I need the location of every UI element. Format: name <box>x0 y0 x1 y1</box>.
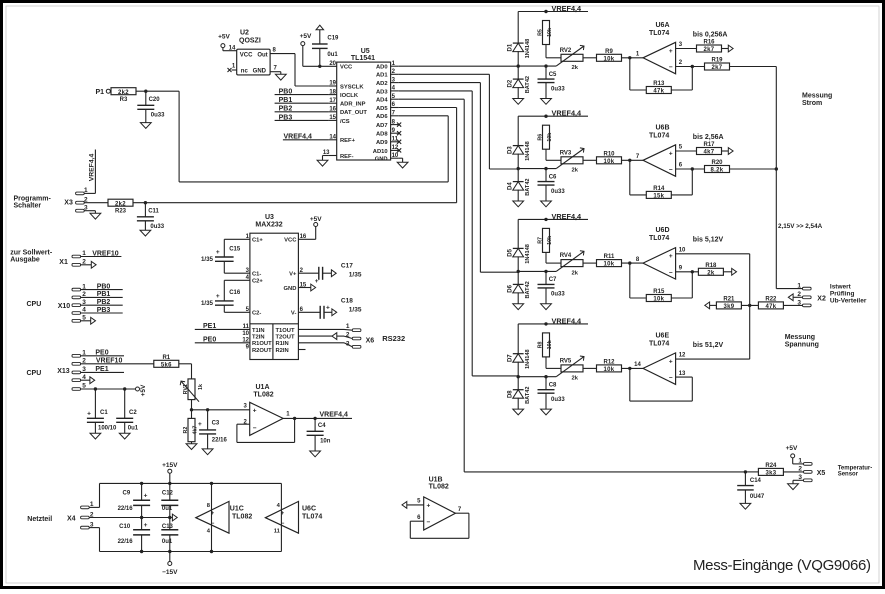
U5 pin 6 AD5 <box>376 102 399 112</box>
wire X4 pin 1 to +rail <box>89 483 281 507</box>
resistor R24 3k3 <box>745 463 803 477</box>
svg-text:R14: R14 <box>653 186 665 192</box>
svg-text:R20: R20 <box>711 160 723 166</box>
svg-text:R22: R22 <box>765 297 777 303</box>
svg-text:D2: D2 <box>508 79 514 87</box>
svg-text:0u1: 0u1 <box>162 506 173 512</box>
X10 pin 5 arrow <box>72 315 96 325</box>
trimmer RV2 2k <box>556 45 584 71</box>
svg-text:0u33: 0u33 <box>151 113 165 119</box>
ground C3 <box>202 449 213 455</box>
svg-text:Spannung: Spannung <box>785 341 819 348</box>
svg-text:Temperatur-: Temperatur- <box>838 465 873 471</box>
label Messung Spannung <box>785 334 819 348</box>
svg-text:+5V: +5V <box>218 34 230 41</box>
svg-text:+: + <box>669 359 673 366</box>
svg-text:2k: 2k <box>572 65 579 71</box>
svg-text:Strom: Strom <box>802 100 822 107</box>
resistor R7 10k pull-up <box>537 228 561 263</box>
+5V supply X5 <box>786 445 804 464</box>
svg-text:BAT42: BAT42 <box>525 281 531 298</box>
svg-text:Programm-: Programm- <box>14 196 52 203</box>
svg-text:BAT42: BAT42 <box>525 387 531 404</box>
ground D4 <box>513 201 524 207</box>
U5 pin 7 AD6 <box>376 111 399 121</box>
wire AD1 to channel 2 <box>399 74 518 169</box>
svg-text:nc: nc <box>241 69 249 75</box>
ground C14 <box>740 503 751 509</box>
U5 pin 16 DAT_OUT <box>329 107 368 117</box>
svg-text:+: + <box>315 278 319 285</box>
svg-text:0u1: 0u1 <box>128 426 139 432</box>
svg-text:R3: R3 <box>120 97 128 103</box>
U3 pin name T1OUT <box>276 328 295 334</box>
svg-text:1: 1 <box>798 458 802 465</box>
wire U3 R1IN to X6 <box>298 343 352 347</box>
capacitor C12 0u1 <box>161 483 178 517</box>
diode D7 1N4148 <box>508 324 531 379</box>
svg-text:5k6: 5k6 <box>161 362 172 368</box>
capacitor C19 <box>312 25 339 68</box>
capacitor C4 <box>307 418 331 451</box>
wire + input to divider <box>676 253 750 255</box>
U3 pin name T2OUT <box>276 335 295 341</box>
svg-text:Istwert: Istwert <box>830 284 852 291</box>
svg-text:CPU: CPU <box>27 301 42 308</box>
svg-text:3: 3 <box>346 340 350 347</box>
svg-text:2k7: 2k7 <box>704 47 715 53</box>
svg-text:VCC: VCC <box>240 53 253 59</box>
wire clamp node <box>518 65 556 67</box>
svg-text:2: 2 <box>346 332 350 339</box>
svg-text:U2: U2 <box>240 30 249 37</box>
wire X4 pin 3 to -rail <box>89 528 281 552</box>
X1 pin 1 VREF10 <box>72 250 121 258</box>
svg-text:VREF4,4: VREF4,4 <box>552 109 583 118</box>
svg-text:11: 11 <box>274 528 281 534</box>
svg-text:2,15V >> 2,54A: 2,15V >> 2,54A <box>778 223 823 230</box>
svg-text:1/35: 1/35 <box>201 256 214 263</box>
svg-text:R6: R6 <box>537 134 543 141</box>
svg-text:2k: 2k <box>572 376 579 382</box>
capacitor C15 <box>201 239 250 273</box>
resistor R20 8.2k to bus <box>676 160 777 174</box>
+5V supply U2 <box>218 34 237 52</box>
resistor R22 47k <box>758 297 802 311</box>
svg-text:AD10: AD10 <box>373 149 388 155</box>
op-amp U1C TL082 power <box>196 482 253 554</box>
svg-text:−: − <box>211 521 215 527</box>
svg-text:R10: R10 <box>603 151 615 157</box>
svg-text:10k: 10k <box>604 262 615 268</box>
svg-text:R1: R1 <box>162 355 170 361</box>
svg-text:VREF4,4: VREF4,4 <box>89 153 96 181</box>
op-amp U6B TL074 <box>636 124 683 176</box>
net label PB1 to U5 <box>275 97 329 104</box>
svg-text:Schalter: Schalter <box>14 203 42 210</box>
wire X4 pin 2 zero rail <box>89 514 177 521</box>
X3 pin 2 <box>76 196 108 204</box>
ground C4 <box>310 451 321 457</box>
svg-text:−: − <box>669 167 673 174</box>
svg-text:R12: R12 <box>603 360 615 366</box>
ground C7 <box>541 304 552 310</box>
svg-text:ADR_INP: ADR_INP <box>340 102 366 108</box>
svg-text:C3: C3 <box>212 421 220 427</box>
svg-text:C17: C17 <box>341 263 353 270</box>
trimmer RV5 2k <box>556 356 584 382</box>
svg-text:RS232: RS232 <box>382 334 405 343</box>
svg-text:+: + <box>669 253 673 260</box>
svg-text:47k: 47k <box>765 304 776 310</box>
op-amp U1B TL082 <box>417 477 462 531</box>
svg-text:D7: D7 <box>508 354 514 362</box>
svg-text:14: 14 <box>634 362 641 368</box>
resistor R18 2k to arrow <box>676 263 737 277</box>
X3 pin 3 ground <box>76 205 101 220</box>
svg-text:R15: R15 <box>653 289 665 295</box>
svg-text:0u1: 0u1 <box>162 539 173 545</box>
connector X5 Temperatur-Sensor <box>798 458 872 482</box>
+5V supply U5 <box>300 33 337 67</box>
resistor R10 10k <box>583 151 643 165</box>
wire U3 T2OUT to X6 with arrow <box>298 333 352 340</box>
svg-text:1/35: 1/35 <box>349 306 362 313</box>
connector X10 CPU <box>27 301 71 310</box>
svg-text:10k: 10k <box>604 159 615 165</box>
svg-text:D3: D3 <box>508 146 514 154</box>
svg-text:X3: X3 <box>64 199 73 206</box>
svg-text:PE0: PE0 <box>203 337 216 344</box>
svg-text:C5: C5 <box>549 72 557 78</box>
svg-text:15k: 15k <box>653 194 664 200</box>
svg-text:22/16: 22/16 <box>212 437 228 443</box>
svg-text:+: + <box>144 492 148 499</box>
svg-text:+: + <box>281 511 285 517</box>
svg-text:VREF4,4: VREF4,4 <box>552 4 583 13</box>
svg-text:C13: C13 <box>162 524 174 530</box>
+15V terminal <box>140 462 178 485</box>
diode D5 1N4148 <box>508 219 531 273</box>
svg-text:2k: 2k <box>572 168 579 174</box>
U5 GND ground <box>397 158 408 168</box>
X13 pin 5 +5V <box>72 383 147 397</box>
+5V supply U3 <box>298 216 322 239</box>
svg-text:U1A: U1A <box>256 384 270 391</box>
capacitor C3 <box>198 410 227 449</box>
resistor R9 10k <box>583 49 643 63</box>
svg-text:−: − <box>669 269 673 276</box>
svg-text:Messung: Messung <box>785 334 815 341</box>
resistor R19 2k7 to bus <box>676 58 777 72</box>
svg-text:2k: 2k <box>707 270 715 276</box>
ground C6 <box>541 201 552 207</box>
U5 pin 13 REF- <box>323 150 354 160</box>
svg-text:AD5: AD5 <box>376 106 388 112</box>
svg-text:TL082: TL082 <box>232 514 252 521</box>
ground C2 <box>119 433 130 439</box>
feedback wire U6E <box>630 368 693 401</box>
svg-text:C1-: C1- <box>252 272 261 278</box>
svg-text:AD3: AD3 <box>376 89 388 95</box>
bus current sense to X2 pin 1 <box>775 67 803 289</box>
svg-text:AD8: AD8 <box>376 132 388 138</box>
U3 pin 8 stub <box>298 349 305 351</box>
svg-text:10k: 10k <box>547 133 553 142</box>
svg-text:R18: R18 <box>705 263 717 269</box>
capacitor C8 0u33 <box>538 375 566 409</box>
svg-text:R5: R5 <box>537 29 543 36</box>
svg-text:C20: C20 <box>149 97 161 103</box>
svg-text:X10: X10 <box>58 303 71 310</box>
capacitor C2 <box>116 389 139 433</box>
capacitor C7 0u33 <box>538 270 566 304</box>
svg-text:P1: P1 <box>95 89 104 96</box>
wire AD2 to channel 3 <box>399 83 518 273</box>
wire X3 node to AD5 <box>133 201 457 204</box>
svg-text:10k: 10k <box>547 236 553 245</box>
svg-text:MAX232: MAX232 <box>255 221 282 228</box>
resistor R21 3k9 <box>716 297 758 311</box>
svg-text:C18: C18 <box>341 298 353 305</box>
svg-text:TL1541: TL1541 <box>351 55 375 62</box>
svg-text:R17: R17 <box>703 142 715 148</box>
svg-text:D6: D6 <box>508 284 514 292</box>
svg-text:1: 1 <box>346 323 350 330</box>
svg-text:3k9: 3k9 <box>723 304 734 310</box>
net PE0 to U3 <box>195 337 250 344</box>
op-amp U1A TL082 <box>243 384 290 435</box>
svg-text:2: 2 <box>798 466 802 473</box>
svg-text:AD9: AD9 <box>376 140 388 146</box>
svg-text:CPU: CPU <box>27 370 42 377</box>
svg-text:AD0: AD0 <box>376 65 388 71</box>
svg-text:10: 10 <box>242 331 249 337</box>
svg-text:12: 12 <box>679 353 686 359</box>
ground D2 <box>513 99 524 105</box>
svg-text:bis 2,56A: bis 2,56A <box>693 134 724 141</box>
svg-text:1N4148: 1N4148 <box>525 244 531 264</box>
svg-text:Prüfling: Prüfling <box>830 291 855 298</box>
resistor R2 4k7 <box>183 418 198 443</box>
svg-text:+5V: +5V <box>140 384 147 396</box>
svg-text:0u33: 0u33 <box>551 189 565 195</box>
svg-text:AD4: AD4 <box>376 98 388 104</box>
label bis 0,256A <box>693 31 728 38</box>
resistor R17 4k7 to arrow <box>676 142 734 156</box>
capacitor C13 0u1 <box>161 518 178 552</box>
svg-text:U1C: U1C <box>230 506 244 513</box>
diode D3 1N4148 <box>508 116 531 170</box>
ground C11 <box>140 230 151 236</box>
svg-text:−: − <box>669 64 673 71</box>
svg-text:C15: C15 <box>229 246 241 252</box>
svg-text:U5: U5 <box>361 48 370 55</box>
svg-text:PB2: PB2 <box>279 106 293 113</box>
svg-text:C11: C11 <box>148 209 159 215</box>
svg-text:VCC: VCC <box>284 238 297 244</box>
svg-text:0u33: 0u33 <box>551 397 565 403</box>
svg-text:+: + <box>253 407 257 414</box>
svg-text:C6: C6 <box>549 174 557 180</box>
net label PB2 to U5 <box>275 106 329 113</box>
svg-text:X4: X4 <box>67 515 76 522</box>
svg-text:C10: C10 <box>119 524 131 530</box>
IC U3 MAX232 <box>250 214 299 359</box>
svg-text:+: + <box>144 522 148 529</box>
svg-text:Out: Out <box>257 53 267 59</box>
node P1 <box>95 89 111 96</box>
svg-text:−: − <box>253 425 257 432</box>
title Mess-Eingaenge <box>693 557 871 574</box>
svg-text:+: + <box>87 411 91 418</box>
svg-text:R24: R24 <box>765 463 777 469</box>
svg-text:22/16: 22/16 <box>118 506 134 512</box>
svg-text:PB0: PB0 <box>97 283 111 290</box>
svg-text:1N4148: 1N4148 <box>525 349 531 369</box>
svg-text:R21: R21 <box>723 297 735 303</box>
svg-text:D4: D4 <box>508 182 514 190</box>
svg-text:PE0: PE0 <box>95 350 108 357</box>
X13 pin 3 PE1 <box>72 366 124 374</box>
op-amp U6A TL074 <box>636 22 683 74</box>
svg-text:C1: C1 <box>100 410 108 416</box>
U3 pin 12 R1OUT <box>242 338 272 348</box>
U1A feedback wire <box>237 418 295 442</box>
U3 pin 15 GND <box>284 282 307 292</box>
svg-text:−: − <box>427 519 431 526</box>
svg-text:R9: R9 <box>605 49 613 55</box>
svg-text:AD7: AD7 <box>376 123 388 129</box>
label bis 51,2V <box>693 342 724 349</box>
svg-text:4k7: 4k7 <box>704 150 715 156</box>
connector X4 Netzteil <box>27 501 94 529</box>
svg-text:−: − <box>281 521 285 527</box>
svg-text:AD6: AD6 <box>376 114 388 120</box>
svg-text:2k: 2k <box>572 270 579 276</box>
resistor R1 5k6 <box>154 355 192 379</box>
svg-text:−15V: −15V <box>162 569 178 576</box>
U3 pin 4 C2+ <box>246 275 264 285</box>
U3 pin name R1IN <box>276 341 289 347</box>
svg-text:1N4148: 1N4148 <box>525 39 531 59</box>
trimmer RV1 1k <box>180 379 204 402</box>
svg-text:13: 13 <box>679 371 686 377</box>
svg-text:+: + <box>669 150 673 157</box>
svg-text:PE1: PE1 <box>95 366 108 373</box>
capacitor C11 <box>137 203 165 231</box>
U1B feedback wire <box>410 513 469 538</box>
svg-text:10k: 10k <box>547 28 553 37</box>
diode D1 1N4148 <box>508 12 531 68</box>
ground D6 <box>513 304 524 310</box>
wire U2 out to U5 SYSCLK <box>270 48 329 86</box>
capacitor C10 22/16 <box>118 518 151 552</box>
U5 pin 10 GND <box>375 153 399 163</box>
U5 pin 9 AD8 <box>376 128 401 138</box>
ground C1 <box>90 433 101 439</box>
svg-text:+: + <box>198 421 202 428</box>
U3 pin 2 V+ <box>289 268 303 278</box>
svg-text:3: 3 <box>797 299 801 306</box>
net VREF4,4 to U5 REF+ <box>283 134 329 141</box>
svg-text:1N4148: 1N4148 <box>525 141 531 161</box>
X10 pin 3 PB2 <box>72 299 123 307</box>
svg-text:D8: D8 <box>508 390 514 398</box>
svg-text:D1: D1 <box>508 43 514 51</box>
op-amp U6E TL074 <box>634 332 686 384</box>
svg-text:1: 1 <box>797 282 801 289</box>
X13 pin 4 arrow <box>72 374 95 384</box>
label bis 5,12V <box>693 237 724 244</box>
svg-text:zur Sollwert-: zur Sollwert- <box>10 250 53 257</box>
svg-text:C2: C2 <box>129 410 137 416</box>
svg-text:U6E: U6E <box>656 332 670 339</box>
svg-text:PB1: PB1 <box>97 291 111 298</box>
wire AD0 to channel 1 <box>399 65 518 67</box>
svg-text:10: 10 <box>679 247 686 253</box>
label 2,15V to 2,54A <box>778 223 823 230</box>
svg-text:10k: 10k <box>604 367 615 373</box>
wire clamp node <box>518 270 556 272</box>
svg-text:C9: C9 <box>123 491 131 497</box>
svg-text:1/35: 1/35 <box>349 271 362 278</box>
svg-text:VREF4,4: VREF4,4 <box>320 412 349 419</box>
op-amp U6D TL074 <box>636 227 686 279</box>
U5 pin 12 AD10 <box>373 145 401 155</box>
connector X6 RS232 <box>346 323 405 348</box>
svg-text:+: + <box>211 511 215 517</box>
svg-text:TL082: TL082 <box>253 391 273 398</box>
svg-text:R13: R13 <box>653 81 665 87</box>
U5 pin 8 AD7 <box>376 119 401 129</box>
diode D2 BAT42 <box>508 66 531 98</box>
svg-text:1/35: 1/35 <box>201 300 214 307</box>
trimmer RV4 2k <box>556 251 584 277</box>
svg-text:C7: C7 <box>549 277 557 283</box>
resistor R6 10k pull-up <box>537 125 561 160</box>
svg-text:TL074: TL074 <box>649 30 669 37</box>
wire RV1 to R2 <box>190 400 193 419</box>
svg-text:GND: GND <box>253 69 267 75</box>
capacitor C14 <box>737 470 765 503</box>
U1B input arrow <box>402 502 424 509</box>
svg-text:10k: 10k <box>547 340 553 349</box>
svg-text:2k2: 2k2 <box>118 90 129 96</box>
svg-text:2k2: 2k2 <box>115 201 126 207</box>
X13 pin 1 PE0 <box>72 350 124 358</box>
label Messung Strom <box>802 93 832 107</box>
U3 pin 5 C2- <box>246 307 262 317</box>
svg-text:10n: 10n <box>320 439 331 445</box>
connector X1 zur Sollwert-Ausgabe <box>10 250 68 266</box>
capacitor C16 <box>201 280 250 312</box>
svg-text:C16: C16 <box>229 290 241 296</box>
U5 pin 3 AD2 <box>376 77 399 87</box>
svg-text:bis 0,256A: bis 0,256A <box>693 31 728 38</box>
U5 pin 1 AD0 <box>376 61 399 71</box>
svg-text:C19: C19 <box>327 35 339 41</box>
X5 pin 3 ground <box>788 480 804 489</box>
X1 pin 2 arrow <box>72 259 96 269</box>
U5 pin 11 AD9 <box>376 137 401 147</box>
svg-text:R1OUT: R1OUT <box>252 341 272 347</box>
trimmer RV3 2k <box>556 148 584 174</box>
U3 pin 16 VCC <box>284 234 307 244</box>
svg-text:GND: GND <box>284 286 297 292</box>
svg-text:BAT42: BAT42 <box>525 178 531 195</box>
wire AD4 to temperature node <box>399 99 746 472</box>
